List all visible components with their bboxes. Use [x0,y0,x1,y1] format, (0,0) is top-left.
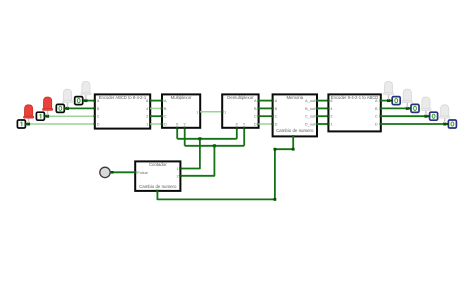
svg-text:B: B [97,107,100,111]
wire cambio de numero feedback [157,136,293,199]
wire contador out1 to X rail [180,139,200,169]
svg-text:A_out: A_out [305,99,316,103]
node Y rail junction [213,144,216,147]
output pin O3 value 0 [428,112,438,120]
wire demux X select [236,127,238,139]
node tap output [387,99,390,102]
node cambio corner 3 [292,148,295,151]
svg-text:C: C [254,115,257,119]
svg-text:D_out: D_out [305,123,316,127]
wire encoder U5 out to output pin [381,100,392,102]
svg-text:2: 2 [146,115,148,119]
subcircuit U3 Demultiplexor [221,94,260,127]
node tap B [66,107,69,110]
svg-text:Encoder 8-4-2-1 to ABCD: Encoder 8-4-2-1 to ABCD [331,95,378,100]
output pin O4 value 0 [447,120,457,128]
node cambio corner 1 [274,198,277,201]
svg-text:D: D [164,123,167,127]
wire demux out to memoria in [259,123,273,125]
svg-text:D: D [97,123,100,127]
svg-text:D: D [375,123,378,127]
wire demux out to memoria in [259,115,273,117]
wire memoria out to encoder U5 in [317,107,328,109]
svg-text:X: X [236,122,239,126]
svg-text:1: 1 [196,110,198,114]
svg-text:Encoder ABCD to 8-4-2-1: Encoder ABCD to 8-4-2-1 [99,95,147,100]
svg-text:1: 1 [330,123,332,127]
wire encoder U1 out to mux in [150,115,162,117]
svg-text:8: 8 [330,99,332,103]
subcircuit U1 Encoder ABCD to 8-4-2-1 [94,94,152,128]
wire demux out to memoria in [259,107,273,109]
node tap output [424,115,427,118]
svg-text:8: 8 [146,99,148,103]
svg-text:A: A [375,99,378,103]
input pin B value 0 [56,104,66,112]
svg-text:Multiplexor: Multiplexor [171,95,192,100]
svg-text:Cambio de numero: Cambio de numero [139,184,177,189]
wire input A to encoder [83,100,95,102]
wire button to contador Pulsar [110,171,135,174]
LED L6 (off) [402,89,412,107]
node cambio corner 2 [274,148,277,151]
svg-text:2: 2 [176,174,178,178]
LED L8 (off) [440,105,450,123]
svg-text:Demultiplexor: Demultiplexor [227,95,254,100]
svg-text:Pulsar: Pulsar [137,171,148,175]
wire mux X select [176,127,178,139]
node tap D [27,123,30,126]
output pin O1 value 0 [390,97,400,105]
node tap C [46,115,49,118]
LED L5 (off) [383,81,393,99]
svg-text:B: B [275,107,278,111]
svg-text:Cambio de numero: Cambio de numero [276,128,314,133]
wire input C to encoder [45,115,95,117]
svg-text:Memoria: Memoria [286,95,303,100]
wire memoria out to encoder U5 in [317,123,328,125]
input pin C value 1 [36,112,46,120]
svg-text:B: B [254,107,257,111]
wire encoder U5 out to output pin [381,107,411,109]
LED L7 (off) [421,97,431,115]
wire mux out to demux in [200,111,222,113]
wire demux out to memoria in [259,100,273,102]
svg-text:X: X [176,122,179,126]
svg-text:1: 1 [176,167,178,171]
svg-text:1: 1 [224,110,226,114]
wire encoder U5 out to output pin [381,115,429,117]
svg-text:D: D [254,123,257,127]
LED L1 (off) [81,81,91,99]
svg-text:C: C [375,115,378,119]
wire mux Y select [184,127,186,146]
wire encoder U1 out to mux in [150,100,162,102]
wire memoria out to encoder U5 in [317,115,328,117]
input pin A value 0 [75,97,85,105]
wire memoria out to encoder U5 in [317,100,328,102]
subcircuit U4 Memoria [271,94,318,137]
svg-text:C: C [97,115,100,119]
svg-text:C_out: C_out [305,115,316,119]
LED L2 (off) [62,89,72,107]
svg-text:2: 2 [330,115,332,119]
svg-text:B: B [375,107,378,111]
subcircuit U5 Encoder 8-4-2-1 to ABCD [327,94,382,131]
wire X rail [177,138,237,140]
output pin O2 value 0 [409,104,419,112]
svg-text:A: A [97,99,100,103]
wire encoder U1 out to mux in [150,123,162,125]
svg-text:D: D [275,123,278,127]
input pin D value 1 [17,120,27,128]
svg-text:Contador: Contador [149,162,167,167]
node tap A [84,99,87,102]
LED L4 (on red) [23,105,33,123]
svg-text:Y: Y [243,122,246,126]
svg-text:Y: Y [183,122,186,126]
subcircuit U6 Contador [134,161,182,192]
svg-text:4: 4 [330,107,332,111]
node X rail junction [198,137,201,140]
svg-text:C: C [164,115,167,119]
svg-text:1: 1 [146,123,148,127]
svg-text:A: A [254,99,257,103]
wire Y rail [185,145,245,147]
svg-text:C: C [275,115,278,119]
svg-text:A: A [275,99,278,103]
push button S1 (Pulsar) [100,167,110,177]
node tap output [443,123,446,126]
wire encoder U1 out to mux in [150,107,162,109]
node tap output [406,107,409,110]
wire input D to encoder [26,123,95,125]
wire input B to encoder [65,107,95,109]
subcircuit U2 Multiplexor [161,94,202,127]
wire demux Y select [243,127,245,146]
LED L3 (on red) [42,97,52,115]
wire encoder U5 out to output pin [381,123,448,125]
svg-text:4: 4 [146,107,148,111]
svg-text:B_out: B_out [305,107,316,111]
wire contador out2 to Y rail [180,146,214,176]
